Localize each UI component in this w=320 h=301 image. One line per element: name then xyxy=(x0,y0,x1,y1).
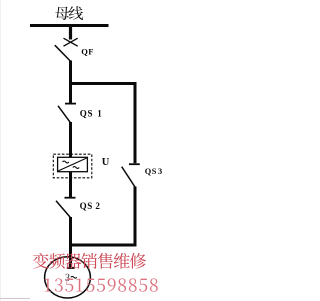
svg-text:3: 3 xyxy=(158,167,162,176)
svg-text:S: S xyxy=(87,201,92,211)
svg-text:S: S xyxy=(152,167,157,176)
svg-text:2: 2 xyxy=(95,201,100,211)
svg-text:Q: Q xyxy=(145,167,152,176)
svg-text:1: 1 xyxy=(97,108,102,118)
svg-text:QF: QF xyxy=(81,46,94,56)
svg-text:S: S xyxy=(88,108,93,118)
svg-text:Q: Q xyxy=(80,108,87,118)
svg-text:U: U xyxy=(102,157,110,168)
svg-text:Q: Q xyxy=(80,201,87,211)
